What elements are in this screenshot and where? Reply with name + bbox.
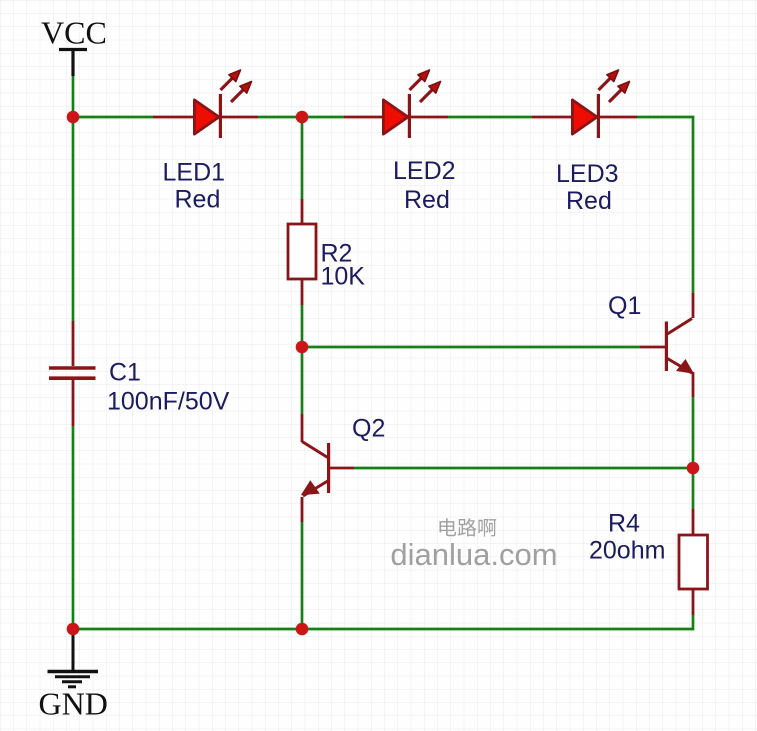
svg-text:Red: Red [175, 186, 221, 214]
svg-text:Q2: Q2 [352, 415, 385, 443]
svg-text:Red: Red [404, 186, 450, 214]
svg-text:dianlua.com: dianlua.com [390, 537, 557, 572]
wire top rail segment 3 [448, 116, 532, 119]
junction node mid (R2 bottom / Q1 base) [296, 341, 309, 354]
svg-text:VCC: VCC [41, 15, 107, 51]
power flag VCC symbol [59, 50, 87, 77]
LED LED2 [344, 70, 448, 138]
wire top rail segment 1 [73, 116, 153, 119]
wire bottom rail [73, 628, 693, 631]
resistor R4 [679, 509, 708, 615]
wire right vertical upper [692, 117, 695, 293]
ground [48, 629, 99, 687]
svg-text:C1: C1 [109, 359, 141, 387]
svg-text:LED2: LED2 [393, 157, 456, 185]
LED LED1 [153, 70, 258, 138]
svg-text:GND: GND [39, 686, 108, 722]
svg-text:100nF/50V: 100nF/50V [107, 388, 230, 416]
wire Q2 base horizontal [354, 467, 693, 470]
svg-text:10K: 10K [321, 263, 366, 291]
transistor Q1 [640, 293, 694, 397]
junction node right (Q1 emitter / Q2 base) [687, 462, 700, 475]
wire mid vertical between R2 and node [301, 305, 304, 414]
wire left vertical upper [72, 75, 75, 321]
wire Q1 base horizontal [302, 346, 640, 349]
svg-text:LED1: LED1 [163, 159, 226, 187]
svg-text:Red: Red [566, 187, 612, 215]
wire mid vertical lower [301, 522, 304, 629]
junction node bottom mid [296, 623, 309, 636]
wire mid vertical upper [301, 117, 304, 199]
capacitor C1 [49, 321, 96, 426]
wire right vertical lower [692, 615, 695, 630]
junction node at VCC rail left [67, 111, 80, 124]
svg-text:20ohm: 20ohm [589, 537, 665, 565]
transistor Q2 [301, 414, 354, 522]
svg-text:LED3: LED3 [556, 160, 619, 188]
resistor R2 [288, 199, 316, 305]
wire right vertical middle [692, 397, 695, 509]
junction node bottom left [67, 623, 80, 636]
wire top rail segment 4 [637, 116, 694, 119]
svg-text:R4: R4 [608, 510, 640, 538]
wire top rail segment 2 [258, 116, 344, 119]
watermark 电路啊 [440, 518, 497, 536]
junction node top mid [296, 111, 309, 124]
wire left vertical lower [72, 426, 75, 629]
svg-text:Q1: Q1 [608, 292, 641, 320]
LED LED3 [532, 70, 637, 138]
